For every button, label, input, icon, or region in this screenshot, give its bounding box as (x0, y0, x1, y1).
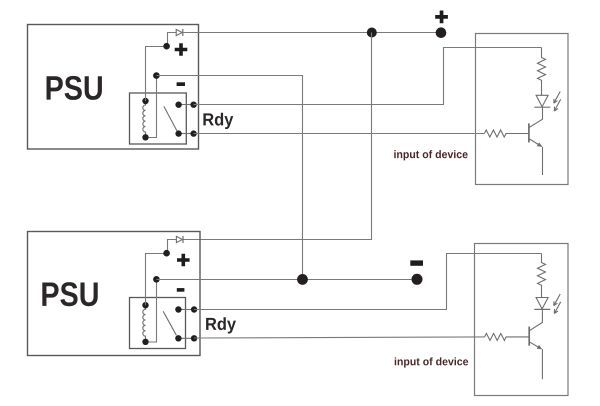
node minus PSU2 (153, 276, 160, 283)
wire plus node PSU2 to relay coil (146, 254, 167, 306)
device2 light arrow a (554, 294, 560, 306)
device2 emitter lead (541, 349, 543, 379)
relay K1 box (130, 93, 187, 144)
plus symbol PSU2 (177, 254, 190, 267)
plus rail wire (183, 32, 441, 34)
wire minus node PSU1 down to coil bottom (149, 76, 157, 138)
device1 transistor emitter wire (529, 139, 542, 147)
minus rail wire (157, 279, 418, 281)
device2 LED (536, 298, 548, 309)
wire from plus-rail junction down to PSU2 diode (183, 33, 372, 240)
device2 transistor collector wire (529, 309, 542, 330)
input of device label 2 (395, 357, 468, 367)
diode D2 cathode bar (182, 236, 184, 243)
junction node on minus rail (297, 274, 308, 285)
relay K2 top contact stub (178, 309, 194, 311)
device2 base resistor (485, 333, 530, 340)
wire Rdy1 to device1 base resistor (194, 133, 485, 135)
diode D2 anode wire (167, 240, 177, 254)
device1 light arrow a (554, 92, 560, 104)
wire minus node PSU2 down to coil bottom (149, 280, 157, 343)
relay K1 bottom contact nodes (175, 130, 181, 136)
relay K1 coil bottom node (142, 134, 148, 140)
minus terminal node (412, 274, 423, 285)
relay K2 coil (143, 305, 146, 342)
device2 box (475, 244, 569, 396)
plus terminal node (436, 27, 447, 38)
Rdy1 label (203, 113, 233, 129)
device1 box (476, 34, 569, 185)
junction node on plus rail (367, 28, 377, 38)
relay K2 bottom contact nodes (175, 335, 181, 341)
minus symbol PSU1 (177, 82, 185, 86)
diode D1 anode wire (167, 33, 177, 47)
relay K2 top contact nodes (175, 306, 181, 312)
wire plus node PSU1 to relay coil (146, 47, 167, 102)
diode D1 (176, 29, 182, 35)
diode D1 cathode bar (182, 29, 184, 36)
relay K1 coil top node (142, 98, 148, 104)
minus terminal symbol (410, 260, 423, 265)
device2 series resistor (538, 254, 546, 298)
device1 base resistor (484, 130, 529, 137)
Rdy2 label (206, 317, 236, 333)
wire PSU2 top contact to device2 series resistor (194, 254, 541, 310)
relay K1 top contact nodes (175, 102, 181, 108)
node plus PSU2 (163, 250, 170, 257)
plus terminal symbol (435, 11, 448, 24)
device2 LED cathode bar (534, 308, 550, 310)
device1 transistor Q1 base bar (528, 123, 530, 142)
device1 series resistor (538, 48, 546, 96)
diode D2 (176, 236, 182, 242)
plus symbol PSU1 (175, 43, 188, 56)
relay K2 switch blade (163, 311, 176, 335)
relay K2 box (130, 298, 186, 349)
device2 transistor Q2 base bar (528, 327, 530, 346)
wire PSU1 top contact to device1 series resistor (194, 48, 542, 105)
PSU2 box (28, 232, 201, 356)
PSU1 box (28, 25, 199, 150)
node minus PSU1 (153, 72, 160, 79)
device1 LED cathode bar (534, 106, 550, 108)
PSU1 label (47, 76, 102, 100)
relay K1 switch blade (164, 106, 177, 131)
device2 light arrow b (554, 302, 560, 314)
wire PSU1 minus to minus-rail junction (157, 76, 303, 280)
PSU2 label (42, 282, 97, 306)
relay K1 top contact stub (179, 104, 194, 106)
node plus PSU1 (163, 43, 170, 50)
device1 emitter lead (542, 147, 544, 175)
relay K2 coil bottom node (142, 339, 148, 345)
device2 transistor emitter wire (529, 342, 541, 349)
relay K1 coil (143, 101, 146, 137)
minus symbol PSU2 (177, 288, 185, 292)
device1 transistor collector wire (529, 107, 543, 127)
relay K2 coil top node (142, 302, 148, 308)
device1 LED (536, 95, 548, 106)
relay K2 bottom contact stub (178, 337, 194, 339)
device1 light arrow b (554, 99, 560, 111)
input of device label 1 (394, 150, 467, 160)
relay K1 bottom contact stub (179, 133, 194, 135)
wire Rdy2 to device2 base resistor (194, 337, 485, 338)
